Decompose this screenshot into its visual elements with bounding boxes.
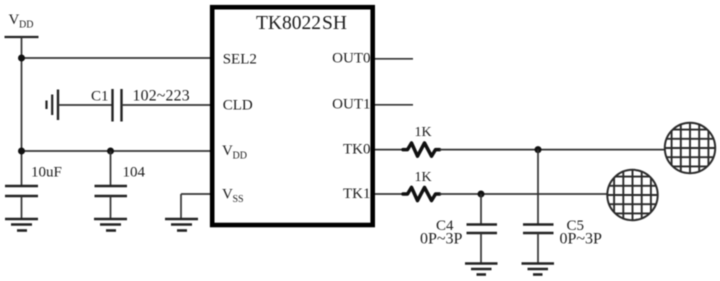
svg-text:TK1: TK1 xyxy=(343,186,371,202)
svg-text:DD: DD xyxy=(233,151,247,162)
svg-text:V: V xyxy=(222,143,233,159)
svg-text:SS: SS xyxy=(233,194,244,205)
svg-text:104: 104 xyxy=(123,165,146,181)
svg-text:1K: 1K xyxy=(415,125,432,140)
svg-text:TK8022: TK8022 xyxy=(256,13,321,34)
svg-text:DD: DD xyxy=(19,20,33,31)
svg-text:0P~3P: 0P~3P xyxy=(420,231,463,248)
svg-text:SEL2: SEL2 xyxy=(223,52,257,68)
svg-text:V: V xyxy=(9,12,20,28)
svg-text:OUT0: OUT0 xyxy=(332,51,370,67)
svg-text:V: V xyxy=(222,187,233,203)
svg-text:CLD: CLD xyxy=(223,98,253,114)
svg-text:102~223: 102~223 xyxy=(133,88,190,105)
svg-text:SH: SH xyxy=(322,13,347,34)
svg-text:0P~3P: 0P~3P xyxy=(560,231,603,248)
svg-text:OUT1: OUT1 xyxy=(332,97,370,113)
svg-text:10uF: 10uF xyxy=(31,165,62,181)
svg-text:TK0: TK0 xyxy=(343,142,371,158)
svg-text:C1: C1 xyxy=(91,89,109,105)
svg-text:1K: 1K xyxy=(415,170,432,185)
